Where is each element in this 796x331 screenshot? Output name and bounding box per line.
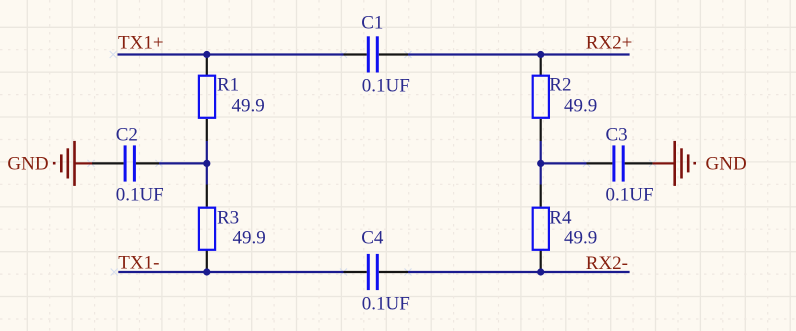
svg-text:49.9: 49.9	[564, 95, 597, 116]
svg-text:0.1UF: 0.1UF	[606, 185, 654, 206]
svg-text:TX1+: TX1+	[118, 32, 164, 53]
svg-text:RX2-: RX2-	[586, 253, 628, 274]
svg-text:C2: C2	[116, 124, 138, 145]
svg-text:0.1UF: 0.1UF	[116, 184, 164, 205]
svg-text:0.1UF: 0.1UF	[362, 293, 410, 314]
svg-text:49.9: 49.9	[233, 227, 266, 248]
svg-text:R2: R2	[549, 75, 571, 96]
svg-text:GND: GND	[7, 153, 48, 174]
svg-text:49.9: 49.9	[232, 95, 265, 116]
svg-text:49.9: 49.9	[564, 227, 597, 248]
svg-text:C3: C3	[606, 125, 628, 146]
svg-text:R1: R1	[217, 75, 239, 96]
svg-text:R3: R3	[217, 208, 239, 229]
svg-text:0.1UF: 0.1UF	[362, 75, 410, 96]
svg-text:GND: GND	[706, 153, 747, 174]
svg-text:C1: C1	[361, 13, 383, 34]
svg-text:R4: R4	[549, 208, 572, 229]
svg-text:TX1-: TX1-	[118, 253, 159, 274]
svg-text:RX2+: RX2+	[586, 32, 633, 53]
svg-text:C4: C4	[361, 228, 384, 249]
